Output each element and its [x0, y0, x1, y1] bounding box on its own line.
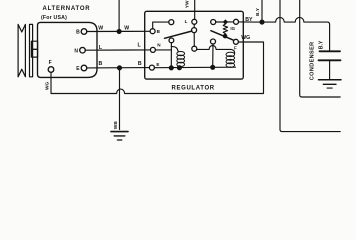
- regulator terminal BY: [234, 19, 239, 24]
- contact K1 moving-end: [192, 28, 197, 33]
- ground condenser: [319, 80, 342, 88]
- wire L link: [193, 24, 195, 27]
- svg-text:B.Y: B.Y: [319, 40, 325, 49]
- wire L row: [85, 49, 150, 51]
- svg-text:ALTERNATOR: ALTERNATOR: [43, 6, 91, 12]
- svg-text:E: E: [156, 62, 159, 67]
- alternator terminal F: [48, 67, 54, 73]
- node resistor top: [223, 19, 228, 24]
- wire N inside: [155, 49, 171, 51]
- alternator terminal N: [80, 47, 86, 53]
- svg-text:WB: WB: [113, 121, 119, 130]
- wire contact link: [193, 33, 195, 47]
- coil L2: [226, 52, 235, 67]
- node W junction: [117, 29, 121, 33]
- svg-text:W: W: [98, 26, 103, 32]
- wire vertical bus 1: [280, 0, 340, 132]
- regulator terminal B: [150, 29, 155, 34]
- wire WG from F: [51, 42, 264, 94]
- alternator terminal E: [81, 65, 87, 71]
- regulator terminal WG: [233, 39, 238, 44]
- node E junction 1: [169, 66, 173, 70]
- wire BY up: [261, 0, 263, 22]
- capacitor C1: [320, 50, 341, 52]
- svg-text:YW: YW: [185, 0, 191, 8]
- contact K1 lower: [192, 46, 197, 51]
- contact K2 upper-left: [211, 20, 216, 25]
- alternator terminal B: [81, 29, 87, 35]
- wire WB down to ground: [119, 68, 121, 130]
- svg-text:BY: BY: [245, 17, 253, 23]
- resistor R1: [223, 24, 227, 36]
- wire B to contact: [153, 22, 169, 29]
- coil L1 hook: [171, 47, 178, 52]
- wire BY out: [239, 21, 261, 23]
- wire W up to top: [118, 0, 120, 31]
- svg-text:B: B: [99, 61, 103, 67]
- contact K2 lower-left: [211, 39, 216, 44]
- regulator terminal N: [150, 47, 155, 52]
- svg-text:IG: IG: [230, 26, 235, 31]
- wire vertical bus 2: [300, 0, 341, 97]
- wire YW from top: [194, 0, 196, 19]
- regulator terminal E: [149, 65, 154, 70]
- wire to coil L2 with hop: [197, 46, 235, 54]
- wire E row inside: [154, 66, 235, 69]
- svg-text:F: F: [49, 60, 52, 66]
- svg-text:W: W: [124, 25, 129, 31]
- wire K2 down: [212, 44, 214, 67]
- alternator U1 body: [38, 22, 98, 77]
- wire coil L2 to E: [230, 66, 232, 68]
- alternator label: [41, 6, 90, 21]
- pivot relay1: [169, 38, 174, 43]
- svg-text:WG: WG: [44, 81, 50, 90]
- node E junction 2: [177, 66, 181, 70]
- contact K1 upper-left: [169, 20, 174, 25]
- node armature tap: [223, 34, 226, 37]
- svg-text:F: F: [234, 45, 237, 50]
- wire W row: [87, 30, 150, 32]
- svg-text:L: L: [185, 19, 188, 24]
- svg-text:WG: WG: [241, 35, 250, 41]
- regulator box: [145, 11, 244, 79]
- wire coil L1 to E: [178, 66, 180, 67]
- coil L1: [177, 52, 185, 67]
- svg-text:REGULATOR: REGULATOR: [172, 85, 215, 91]
- wire C1 down: [329, 60, 331, 79]
- ground main: [111, 132, 128, 140]
- svg-text:B: B: [138, 61, 142, 67]
- armature relay1: [165, 31, 192, 38]
- svg-text:CONDENSER: CONDENSER: [309, 41, 315, 80]
- svg-text:(For USA): (For USA): [41, 15, 67, 21]
- svg-text:B: B: [76, 30, 80, 36]
- regulator terminal L: [192, 19, 197, 24]
- alternator pulley: [18, 24, 37, 76]
- armature relay2: [211, 31, 234, 41]
- wire BY to condenser with hops: [262, 17, 330, 51]
- wire K2 top row: [216, 21, 234, 23]
- wire pivot down: [170, 43, 172, 68]
- svg-text:N: N: [74, 48, 78, 54]
- node B junction: [118, 66, 122, 70]
- svg-text:B.Y: B.Y: [255, 7, 261, 16]
- node E junction 3: [211, 65, 215, 69]
- node BY junction: [260, 20, 264, 24]
- wire B row: [87, 67, 150, 69]
